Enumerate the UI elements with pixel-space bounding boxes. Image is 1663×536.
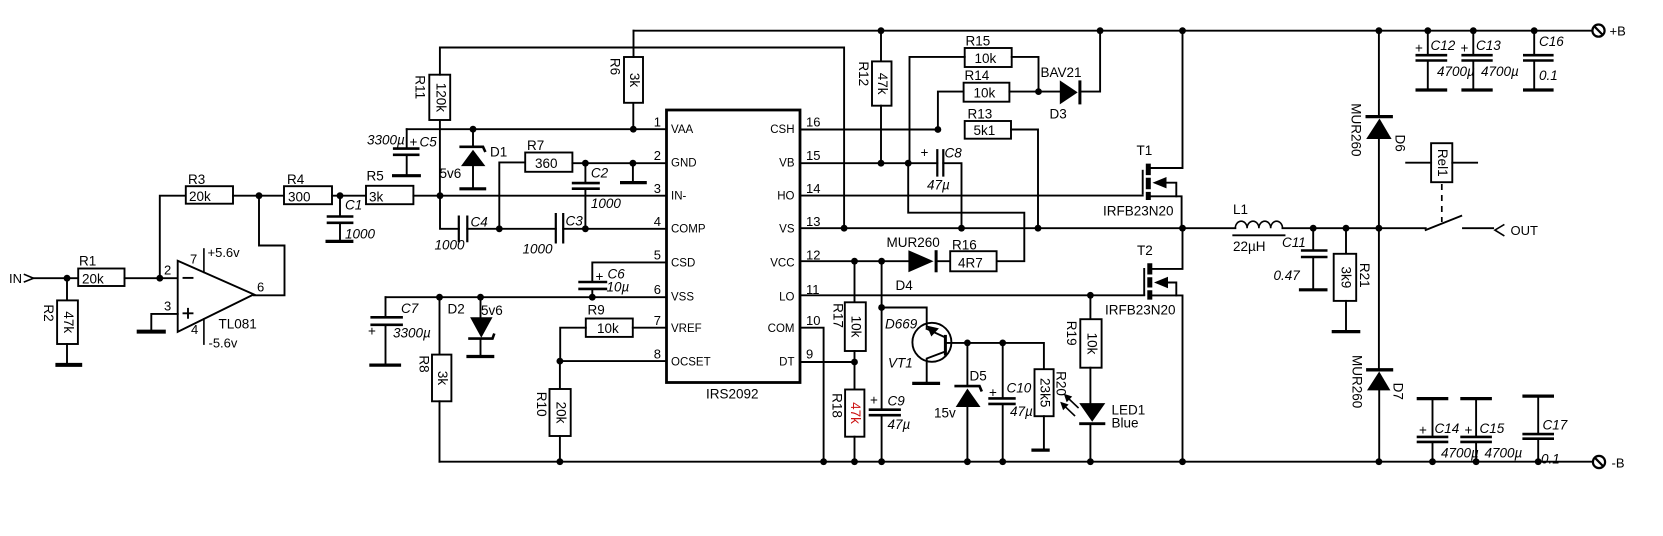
svg-text:+5.6v: +5.6v [208,245,241,260]
svg-text:VB: VB [779,158,795,170]
wire R4 to R5 [332,195,366,197]
capacitor C7 [368,297,431,365]
node VT1 emitter junction [878,304,885,311]
svg-text:1: 1 [654,115,661,130]
wire R8 bottom lead to bottom rail [439,401,441,461]
wire VAA rail (pin 1 row) [407,128,667,130]
resistor R2 [41,300,78,344]
capacitor C11 [1274,228,1328,290]
wire R17 top lead [854,261,856,302]
resistor R4 [284,172,332,204]
node D3 on +B rail [1097,27,1104,34]
node R14-R15-D3 junction [1035,88,1042,95]
svg-text:C7: C7 [401,301,419,316]
capacitor C9 [869,393,911,462]
node D2 junction on VSS row [477,294,484,301]
node D5 on bottom rail [964,458,971,465]
svg-text:1000: 1000 [523,242,554,257]
svg-text:VSS: VSS [671,292,694,304]
wire R18 top lead [854,362,856,390]
svg-text:+: + [1415,41,1423,56]
wire R13 right lead down to VS row [1011,130,1038,229]
svg-text:16: 16 [806,115,820,130]
wire R8 top lead [439,297,441,354]
node C9-VCC junction [878,258,885,265]
svg-text:47k: 47k [875,73,890,95]
node R11 feedback to VS row [841,225,848,232]
transistor VT1 D669 [882,308,968,384]
svg-text:COMP: COMP [671,224,706,236]
svg-text:R12: R12 [856,61,871,86]
svg-text:Rel1: Rel1 [1435,149,1450,177]
svg-text:MUR260: MUR260 [1349,103,1364,156]
node C2-COMP junction [582,225,589,232]
wire +B top rail [634,30,1593,32]
wire LO row pin 11 [800,294,1144,296]
svg-text:C3: C3 [566,214,584,229]
wire R18 bottom lead [854,437,856,462]
svg-text:D3: D3 [1050,107,1067,122]
svg-text:47µ: 47µ [1010,404,1033,419]
wire VS row pin 13 [800,227,1235,229]
node C17 on bottom rail [1535,458,1542,465]
svg-text:IN-: IN- [671,191,687,203]
wire R15 left lead down to VB node [910,57,965,163]
svg-text:R18: R18 [830,393,845,418]
resistor R21 [1334,254,1372,301]
node C13 on +B rail [1470,27,1477,34]
wire bottom rail [440,461,1593,463]
svg-text:3300µ: 3300µ [367,133,405,148]
node R21 junction [1343,225,1350,232]
resistor R16 [950,238,996,272]
svg-text:R17: R17 [831,303,846,328]
svg-text:-B: -B [1612,456,1625,471]
node LED1 on bottom rail [1087,458,1094,465]
svg-text:C12: C12 [1431,38,1456,53]
svg-text:13: 13 [806,214,820,229]
node op-amp inverting input junction [156,275,163,282]
diode D4 MUR260 [887,235,940,293]
op-amp U1 TL081 [164,252,264,338]
svg-text:3: 3 [164,299,171,314]
node R9-R10-OCSET junction [557,358,564,365]
wire R10 top lead [559,361,561,389]
resistor R13 [965,107,1011,139]
svg-text:C13: C13 [1476,38,1501,53]
capacitor C8 [921,145,963,193]
svg-text:0.1: 0.1 [1541,452,1560,467]
svg-text:3300µ: 3300µ [393,326,431,341]
svg-text:C5: C5 [420,135,438,150]
node C10 on bottom rail [999,458,1006,465]
svg-text:10k: 10k [1084,333,1099,355]
node R6 junction on VAA rail [630,126,637,133]
svg-text:R11: R11 [413,75,428,99]
resistor R10 [534,389,571,436]
capacitor C13 [1461,31,1520,90]
transistor T2 IRFB23N20 MOSFET [1105,228,1183,462]
resistor R20 [1035,369,1069,416]
svg-text:+: + [1461,41,1469,56]
svg-text:TL081: TL081 [219,317,257,332]
svg-text:7: 7 [190,252,197,267]
svg-text:2: 2 [164,263,171,278]
wire R17 bottom lead [854,351,856,362]
svg-text:L1: L1 [1233,202,1248,217]
svg-text:2: 2 [654,148,661,163]
wire VSS row pin 6 [386,296,667,298]
ground below R21 [1332,330,1361,333]
wire base node row to R20 [967,343,1044,369]
capacitor C17 [1522,396,1567,466]
zener diode D5 15v [934,343,987,462]
svg-text:1000: 1000 [591,196,622,211]
node C15 on bottom rail [1473,458,1480,465]
svg-text:20k: 20k [554,402,569,424]
svg-text:23k5: 23k5 [1038,378,1053,407]
svg-text:C1: C1 [345,198,362,213]
node D1 junction on VAA rail [470,126,477,133]
capacitor C15 [1460,399,1522,462]
svg-text:4700µ: 4700µ [1481,64,1519,79]
wire OCSET row pin 8 [560,360,667,362]
svg-text:+: + [989,385,997,400]
wire R7 left lead down to COMP row [499,162,525,228]
svg-text:D669: D669 [885,317,918,332]
node input junction [64,275,71,282]
svg-text:DT: DT [779,357,794,369]
wire feedback from op-amp output [254,196,285,296]
node R4-C1 junction [337,192,344,199]
node COM on bottom rail [820,458,827,465]
node C16 on +B rail [1531,27,1538,34]
svg-text:R21: R21 [1357,263,1372,288]
wire R11 bottom lead [439,120,441,196]
resistor R14 [964,68,1010,102]
node GND stub junction [630,160,637,167]
svg-text:CSD: CSD [671,258,695,270]
svg-text:D4: D4 [896,278,914,293]
capacitor C6 [578,267,629,298]
svg-text:10k: 10k [975,51,997,66]
wire input to R1 [34,277,79,279]
wire R3 left lead down to pin 2 [160,196,186,279]
svg-text:C14: C14 [1435,421,1460,436]
svg-text:7: 7 [654,313,661,328]
wire CSD row pin 5 [592,262,666,282]
svg-text:R19: R19 [1064,321,1079,346]
diode D3 BAV21 [1041,31,1101,122]
svg-text:D5: D5 [970,369,987,384]
node IN input terminal [9,271,34,286]
svg-text:47µ: 47µ [927,178,950,193]
node C12 on +B rail [1424,27,1431,34]
svg-text:R5: R5 [367,169,384,184]
svg-text:R15: R15 [966,34,991,49]
wire op-amp pin 3 to ground [151,314,177,331]
wire VB bootstrap elbow to R16 [908,163,1024,261]
svg-text:R6: R6 [608,58,623,75]
svg-text:-5.6v: -5.6v [209,336,238,351]
resistor R15 [965,34,1012,68]
svg-text:10: 10 [806,313,820,328]
svg-text:+: + [410,135,418,150]
wire R14 left lead down to CSH node [938,92,964,130]
svg-text:BAV21: BAV21 [1041,65,1082,80]
svg-text:IRS2092: IRS2092 [706,387,759,402]
svg-text:47k: 47k [61,311,76,333]
resistor R11 [413,75,451,120]
svg-text:R3: R3 [188,172,205,187]
wire R12 bottom lead [880,106,882,164]
wire R20 bottom lead to ground [1043,416,1045,449]
svg-text:T1: T1 [1137,143,1153,158]
node C11 junction [1310,225,1317,232]
svg-text:R2: R2 [41,304,56,321]
wire HO row pin 14 [800,195,1143,197]
svg-text:14: 14 [806,181,820,196]
svg-text:120k: 120k [433,83,448,113]
resistor R17 [831,302,866,351]
diode D6 MUR260 [1349,31,1408,229]
wire R2 top lead [66,278,68,300]
svg-text:R14: R14 [965,68,990,83]
node D7 on bottom rail [1376,458,1383,465]
capacitor C2 [572,163,622,229]
svg-text:4R7: 4R7 [958,256,983,271]
ground below R2 [55,363,82,367]
svg-text:CSH: CSH [770,124,794,136]
node CSH-R13-R14 junction [935,126,942,133]
svg-text:10k: 10k [597,321,619,336]
svg-text:R13: R13 [968,107,993,122]
capacitor C1 [326,196,376,242]
node D6-D7 junction on VS row [1376,225,1383,232]
svg-text:1000: 1000 [345,227,376,242]
svg-text:C4: C4 [471,215,488,230]
svg-text:C10: C10 [1007,381,1032,396]
node -B supply terminal [1593,456,1625,471]
svg-text:Blue: Blue [1112,416,1139,431]
node R17-VCC junction [851,258,858,265]
svg-text:IRFB23N20: IRFB23N20 [1103,204,1174,219]
node R15-VB junction [905,160,912,167]
op-amp IC U2 IRS2092 [654,110,821,402]
node R12 on +B rail [878,27,885,34]
svg-text:6: 6 [257,280,264,295]
wire R6 bottom lead [632,103,634,129]
svg-text:C9: C9 [888,394,906,409]
svg-text:0.47: 0.47 [1274,268,1301,283]
wire R15 right lead down to D3 node [1012,57,1039,92]
svg-text:+: + [1419,423,1427,438]
node C2 top junction [582,160,589,167]
ground below R20 [1031,449,1049,452]
svg-text:15: 15 [806,148,820,163]
switch relay contact [1426,216,1493,230]
node R13 on VS row [1035,225,1042,232]
svg-text:1000: 1000 [435,238,466,253]
svg-text:20k: 20k [189,189,211,204]
svg-text:3k: 3k [369,189,384,204]
capacitor C4 [435,215,488,253]
wire R5 to IRS2092 pin 3 IN- [413,195,666,197]
ground at op-amp pin 3 [137,330,166,334]
svg-text:D6: D6 [1393,135,1408,152]
svg-text:LO: LO [779,292,794,304]
svg-text:IN: IN [9,271,22,286]
svg-text:C17: C17 [1543,418,1568,433]
svg-text:R9: R9 [588,303,605,318]
svg-text:10k: 10k [974,86,996,101]
svg-text:300: 300 [288,189,311,204]
node main input junction at R5/R11/C4 [437,192,444,199]
wire R10 bottom lead [559,436,561,462]
svg-text:C15: C15 [1480,421,1505,436]
wire VCC row pin 12 [800,260,950,262]
svg-text:R20: R20 [1054,371,1069,396]
wire R21 bottom lead to ground [1345,301,1347,331]
svg-text:VS: VS [779,224,795,236]
svg-text:+: + [1465,423,1473,438]
svg-text:OCSET: OCSET [671,357,711,369]
svg-text:6: 6 [654,282,661,297]
svg-text:8: 8 [654,347,661,362]
svg-text:COM: COM [768,323,795,335]
svg-text:R4: R4 [287,172,305,187]
node VT1 base node [964,340,971,347]
LED LED1 Blue [1060,394,1145,462]
svg-text:R7: R7 [527,138,544,153]
resistor R9 [586,303,633,337]
zener diode D1 5v6 [440,129,508,189]
diode D7 MUR260 [1350,228,1406,462]
capacitor C14 [1417,399,1479,462]
svg-text:VAA: VAA [671,124,693,136]
svg-text:22µH: 22µH [1233,239,1266,254]
node T1 drain on +B rail [1179,27,1186,34]
node +B supply terminal [1592,24,1625,39]
svg-text:C8: C8 [945,146,963,161]
ground stub at pin 2 [620,163,647,182]
svg-text:5v6: 5v6 [481,303,503,318]
resistor R19 [1064,319,1102,368]
wire op-amp pin 7 supply [204,245,240,272]
capacitor C5 [367,129,437,176]
svg-text:3k9: 3k9 [1338,267,1353,289]
svg-text:R10: R10 [534,392,549,417]
svg-text:3k: 3k [627,73,642,88]
svg-text:47µ: 47µ [888,417,911,432]
svg-text:R16: R16 [952,238,977,253]
svg-text:10k: 10k [849,316,864,338]
svg-text:4700µ: 4700µ [1485,446,1523,461]
node R19-LO junction [1087,292,1094,299]
node R18 on bottom rail [851,458,858,465]
wire VCC to C9 vertical [881,261,883,410]
transistor T1 IRFB23N20 MOSFET [1103,31,1183,229]
svg-text:5: 5 [654,248,661,263]
svg-text:360: 360 [535,156,558,171]
svg-text:4700µ: 4700µ [1441,446,1479,461]
svg-text:C2: C2 [591,166,609,181]
resistor R18 [830,390,865,437]
svg-text:R8: R8 [417,355,432,372]
svg-text:0.1: 0.1 [1539,68,1558,83]
svg-text:C11: C11 [1282,235,1306,250]
node C10 top junction [999,340,1006,347]
svg-text:4: 4 [654,214,661,229]
resistor R3 [186,172,233,204]
node R17-R18-DT junction [851,359,858,366]
resistor R5 [366,169,413,205]
svg-text:3: 3 [654,181,661,196]
node R8 junction on VSS row [436,294,443,301]
node R12-VB junction [878,160,885,167]
svg-text:VCC: VCC [770,258,794,270]
svg-text:47k: 47k [848,402,863,424]
relay Rel1 [1406,143,1477,222]
node T1 source T2 drain on VS row [1179,225,1186,232]
wire R19 bottom lead [1089,368,1091,403]
wire R9 left lead down to OCSET [560,328,586,361]
wire VS row L1 to switch [1283,227,1426,229]
svg-text:T2: T2 [1137,243,1153,258]
node R3-R4 feedback junction [256,192,263,199]
svg-text:MUR260: MUR260 [887,235,940,250]
wire R9 right to pin 7 VREF [633,327,667,329]
resistor R8 [417,355,452,402]
svg-text:3k: 3k [435,371,450,386]
svg-text:+: + [368,324,376,339]
capacitor C12 [1415,31,1475,90]
wire DT row pin 9 [800,361,855,363]
wire R2 bottom lead [66,344,68,364]
node R10 on bottom rail [557,458,564,465]
node D6 on +B rail [1376,27,1383,34]
resistor R12 [856,61,892,105]
wire GND row pin 2 [572,162,666,164]
wire CSH row pin 16 [800,129,938,131]
wire VB row pin 15 [800,163,962,228]
svg-text:R1: R1 [79,254,96,269]
wire COM pin 10 down to bottom rail [800,328,824,462]
svg-text:MUR260: MUR260 [1350,355,1365,408]
node C8 on VS row [958,225,965,232]
svg-text:D1: D1 [490,145,507,160]
wire R3 to R4 [233,195,284,197]
svg-text:IRFB23N20: IRFB23N20 [1105,303,1176,318]
svg-text:5k1: 5k1 [974,123,996,138]
svg-text:10µ: 10µ [607,280,630,295]
svg-text:D7: D7 [1391,383,1406,400]
node C14 on bottom rail [1429,458,1436,465]
svg-text:VT1: VT1 [888,356,913,371]
wire op-amp pin 4 supply [204,319,238,351]
resistor R1 [78,254,124,287]
svg-text:+: + [596,269,604,284]
capacitor C3 [523,213,584,257]
wire R21 top lead [1345,228,1347,254]
svg-text:5v6: 5v6 [440,166,462,181]
svg-text:+B: +B [1610,24,1626,39]
node R7-COMP junction [496,225,503,232]
wire COMP row pin 4 [440,196,667,229]
svg-text:VREF: VREF [671,323,702,335]
node OUT terminal [1495,223,1538,238]
svg-text:20k: 20k [82,272,104,287]
